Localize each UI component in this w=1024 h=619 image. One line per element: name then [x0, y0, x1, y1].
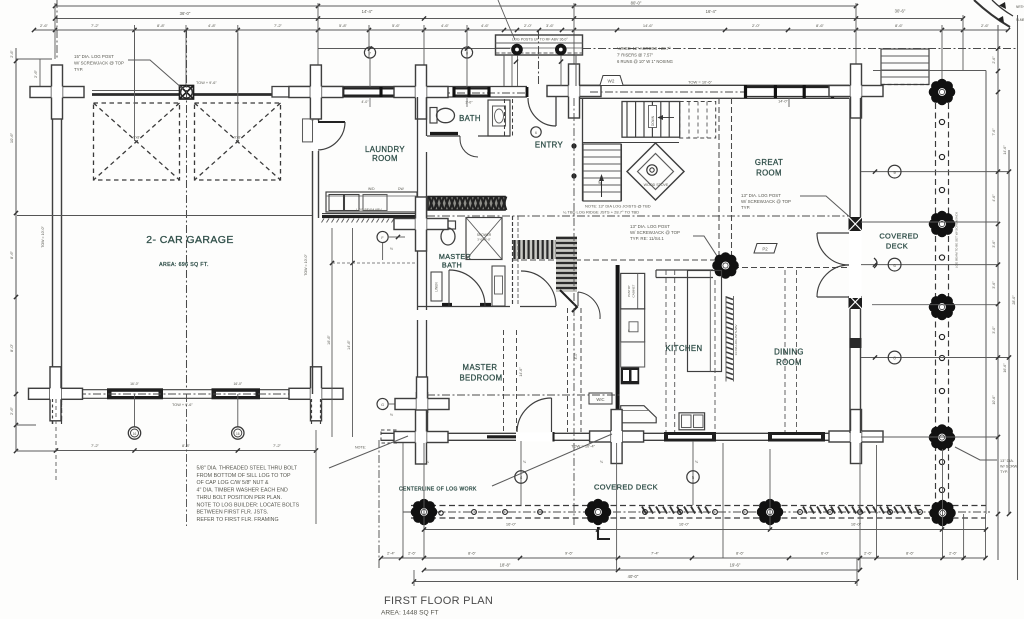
svg-text:WOOD STOVE: WOOD STOVE: [644, 183, 669, 187]
svg-text:28'-0": 28'-0": [1012, 295, 1016, 305]
svg-text:30'-6": 30'-6": [895, 9, 906, 14]
svg-text:FIRST FLOOR PLAN: FIRST FLOOR PLAN: [384, 595, 493, 607]
yard dim lines: [331, 228, 333, 437]
svg-text:2'-6": 2'-6": [864, 551, 873, 556]
house top wall: [318, 86, 527, 88]
svg-text:2'-6": 2'-6": [992, 56, 996, 64]
svg-text:SHOWER: SHOWER: [477, 233, 492, 237]
house south wall: [381, 432, 849, 434]
svg-text:TYP.: TYP.: [741, 205, 750, 210]
svg-text:BATH: BATH: [442, 261, 462, 270]
svg-text:4'-0": 4'-0": [361, 100, 369, 104]
svg-text:TOW + 9'-6": TOW + 9'-6": [172, 403, 193, 407]
deck posts bottom: [411, 499, 438, 526]
right grid bubbles: [861, 171, 1009, 173]
svg-text:16'-0": 16'-0": [233, 382, 242, 386]
svg-text:NRTH: NRTH: [1016, 5, 1024, 9]
svg-text:LAUNDRY: LAUNDRY: [365, 145, 405, 154]
svg-text:¾: ¾: [523, 460, 526, 464]
svg-text:ROOM: ROOM: [372, 154, 398, 163]
svg-text:8'-6": 8'-6": [468, 551, 477, 556]
grid bubble G: [377, 398, 388, 409]
svg-text:8'-6": 8'-6": [736, 551, 745, 556]
svg-text:¾: ¾: [426, 460, 429, 464]
svg-text:KITCHEN: KITCHEN: [665, 344, 702, 353]
deck stairs top: [881, 49, 929, 85]
svg-text:10'-6": 10'-6": [992, 395, 996, 405]
P2 tag: [754, 244, 777, 254]
svg-text:8'-6": 8'-6": [906, 551, 915, 556]
svg-text:REFER TO FIRST FLR. FRAMING: REFER TO FIRST FLR. FRAMING: [197, 517, 279, 523]
svg-text:2'-0": 2'-0": [752, 23, 761, 28]
svg-text:8'-6": 8'-6": [895, 23, 904, 28]
south windows: [664, 432, 716, 442]
svg-text:14'-6": 14'-6": [347, 340, 351, 350]
svg-text:2'-6": 2'-6": [10, 50, 14, 58]
svg-text:3'-0": 3'-0": [992, 326, 996, 334]
entry porch: [496, 35, 583, 55]
stair up (lower): [583, 144, 621, 201]
french doors: [817, 232, 849, 234]
svg-text:6'-0": 6'-0": [821, 551, 830, 556]
svg-text:W/ SCREWJACK @ TOP: W/ SCREWJACK @ TOP: [74, 61, 124, 66]
entry door: [526, 87, 529, 97]
right dimension lines: [997, 25, 999, 560]
svg-text:ROOM: ROOM: [776, 358, 802, 367]
svg-text:TOW + 9'-6": TOW + 9'-6": [196, 81, 217, 85]
svg-text:3'-6": 3'-6": [546, 23, 555, 28]
svg-text:L: L: [628, 329, 630, 333]
svg-text:4" DIA. TIMBER WASHER EACH END: 4" DIA. TIMBER WASHER EACH END: [197, 488, 289, 494]
svg-text:TOW = 10'-6": TOW = 10'-6": [688, 80, 713, 85]
svg-text:14'-4": 14'-4": [362, 9, 373, 14]
garage walls: [52, 92, 54, 424]
svg-text:7' RISERS @ 7.57": 7' RISERS @ 7.57": [617, 53, 654, 58]
top dimension lines: [55, 5, 856, 7]
garage bottom wall: [67, 389, 316, 391]
svg-text:DINING: DINING: [774, 348, 804, 357]
svg-text:40'-0": 40'-0": [628, 574, 639, 579]
svg-text:7'-2": 7'-2": [91, 23, 100, 28]
svg-text:G: G: [381, 403, 384, 407]
svg-text:P2: P2: [762, 247, 768, 252]
svg-text:CABINET: CABINET: [632, 284, 636, 297]
svg-text:16'-0": 16'-0": [506, 522, 517, 527]
svg-text:GREAT: GREAT: [755, 158, 783, 167]
svg-text:LOG BEAM TO BE SET W/ SCREWJAC: LOG BEAM TO BE SET W/ SCREWJACK: [955, 212, 959, 268]
svg-text:BEDROOM: BEDROOM: [459, 374, 502, 383]
svg-text:WIC: WIC: [596, 397, 604, 402]
svg-text:4'-8": 4'-8": [208, 23, 217, 28]
svg-text:W/D: W/D: [368, 187, 375, 191]
window C great room: [744, 86, 834, 97]
svg-text:14'-6": 14'-6": [1003, 145, 1007, 155]
svg-text:BATH: BATH: [459, 114, 481, 123]
svg-text:DECK: DECK: [886, 242, 908, 251]
svg-text:4'-0": 4'-0": [574, 352, 578, 360]
svg-text:W/ SCRW: W/ SCRW: [1000, 465, 1018, 469]
W2 tag: [600, 76, 623, 86]
svg-text:THRU BOLT POSITION PER PLAN.: THRU BOLT POSITION PER PLAN.: [197, 495, 282, 501]
svg-text:18'-8": 18'-8": [500, 563, 511, 568]
svg-text:36'-0": 36'-0": [180, 11, 191, 16]
svg-text:13" DIA. LOG POST: 13" DIA. LOG POST: [630, 224, 670, 229]
svg-text:½: ½: [390, 413, 393, 417]
svg-text:3'-0"x3'-0": 3'-0"x3'-0": [477, 238, 490, 242]
svg-text:8'-6": 8'-6": [816, 23, 825, 28]
svg-text:2'-6": 2'-6": [33, 69, 38, 78]
svg-text:TOW = 10'-0": TOW = 10'-0": [304, 253, 308, 275]
svg-text:14'-6": 14'-6": [519, 367, 523, 377]
svg-text:ENTRY: ENTRY: [535, 141, 564, 150]
svg-text:5/8" DIA. THREADED STEEL THRU: 5/8" DIA. THREADED STEEL THRU BOLT: [197, 466, 298, 472]
deck posts right: [929, 79, 956, 106]
svg-text:7'-6": 7'-6": [992, 128, 996, 136]
svg-text:13 DIA LOG JSTS ABV: 13 DIA LOG JSTS ABV: [734, 324, 738, 355]
svg-text:COVERED: COVERED: [879, 232, 918, 241]
laundry-garage door: [311, 121, 320, 151]
svg-text:TOW = 10'-0": TOW = 10'-0": [41, 225, 45, 247]
svg-text:W/ SCREWJACK @ TOP: W/ SCREWJACK @ TOP: [630, 230, 680, 235]
svg-text:NOTE:: NOTE:: [355, 446, 366, 450]
svg-text:W2: W2: [608, 79, 615, 84]
svg-text:4'-6": 4'-6": [441, 23, 450, 28]
basement stair hatched: [513, 240, 561, 259]
grid bubble F: [377, 231, 388, 242]
svg-text:TYP.: TYP.: [1000, 470, 1008, 474]
deck post dim row: [424, 529, 986, 531]
svg-text:6: 6: [535, 131, 537, 135]
svg-text:3'-6": 3'-6": [992, 281, 996, 289]
window grid bubbles: [318, 48, 510, 50]
left dimension lines: [15, 48, 17, 451]
svg-text:2'-4": 2'-4": [387, 551, 396, 556]
svg-text:LOG POSTS UP TO RF ABV 36.0°: LOG POSTS UP TO RF ABV 36.0°: [512, 38, 568, 42]
svg-text:¼RISE: 12" ACROSS +28.7°: ¼RISE: 12" ACROSS +28.7°: [617, 46, 671, 51]
svg-text:MASTER: MASTER: [463, 363, 498, 372]
svg-text:LINEN: LINEN: [435, 282, 439, 292]
svg-text:14'-0": 14'-0": [778, 100, 788, 104]
svg-text:2'-6": 2'-6": [408, 551, 417, 556]
svg-text:3'-6": 3'-6": [992, 240, 996, 248]
svg-text:DW: DW: [398, 187, 404, 191]
svg-text:13" DIA.: 13" DIA.: [1000, 459, 1014, 463]
svg-text:TOW = 10'-4": TOW = 10'-4": [571, 444, 596, 449]
garage log post: [180, 86, 194, 100]
svg-text:16'-0": 16'-0": [851, 522, 862, 527]
svg-text:7'-2": 7'-2": [274, 23, 283, 28]
svg-text:13" DIA. LOG POST: 13" DIA. LOG POST: [741, 193, 781, 198]
svg-text:TYP. RE: 11/S4.1: TYP. RE: 11/S4.1: [630, 236, 664, 241]
svg-text:NOTE TO LOG BUILDER: LOCATE BO: NOTE TO LOG BUILDER: LOCATE BOLTS: [197, 502, 300, 508]
svg-text:5'-6": 5'-6": [392, 23, 401, 28]
svg-text:8'-8": 8'-8": [157, 23, 166, 28]
svg-text:ROOM: ROOM: [756, 169, 782, 178]
house left wall: [312, 97, 314, 394]
svg-text:8'-6": 8'-6": [9, 250, 14, 259]
svg-text:2'-6": 2'-6": [40, 23, 49, 28]
svg-text:16: 16: [133, 432, 137, 436]
porch posts: [511, 44, 523, 56]
svg-text:CENTERLINE OF LOG WORK: CENTERLINE OF LOG WORK: [399, 487, 477, 493]
svg-text:AREA: 696 SQ FT.: AREA: 696 SQ FT.: [159, 262, 209, 268]
svg-text:¾: ¾: [695, 460, 698, 464]
svg-text:16'-6": 16'-6": [1003, 363, 1007, 373]
svg-text:2'-6": 2'-6": [949, 551, 958, 556]
svg-text:7'-4": 7'-4": [651, 551, 660, 556]
svg-text:NOTE: 13" DIA LOG JOISTS @ TBD: NOTE: 13" DIA LOG JOISTS @ TBD: [585, 204, 651, 209]
svg-text:AREA: 1448 SQ FT: AREA: 1448 SQ FT: [381, 610, 439, 617]
window A: [342, 88, 398, 97]
svg-text:W/ SCREWJACK @ TOP: W/ SCREWJACK @ TOP: [741, 199, 791, 204]
svg-text:7'-2": 7'-2": [91, 443, 100, 448]
svg-text:TYP.: TYP.: [74, 67, 83, 72]
interior log post: [712, 252, 739, 279]
svg-text:6 RUNS @ 10" W 1" NOSING: 6 RUNS @ 10" W 1" NOSING: [617, 59, 673, 64]
svg-text:DOWN: DOWN: [651, 115, 655, 126]
svg-text:LOG BEAM ABV: LOG BEAM ABV: [356, 208, 382, 212]
svg-text:½: ½: [390, 247, 393, 251]
svg-text:9'-6": 9'-6": [565, 551, 574, 556]
stair down (upper): [622, 102, 680, 138]
svg-text:COVERED DECK: COVERED DECK: [594, 483, 658, 492]
svg-text:OF CAP LOG C/W 5/8" NUT &: OF CAP LOG C/W 5/8" NUT &: [197, 480, 269, 486]
svg-text:¾: ¾: [600, 460, 603, 464]
svg-text:80'-0": 80'-0": [631, 1, 642, 6]
svg-text:14'-6": 14'-6": [643, 23, 654, 28]
wood stove: [627, 143, 684, 200]
svg-text:PANTRY: PANTRY: [627, 285, 631, 297]
window B: [453, 87, 490, 89]
svg-text:7'-2": 7'-2": [273, 443, 282, 448]
bottom dimension rows: [381, 557, 986, 559]
garage overhead door symbols: [94, 103, 180, 180]
svg-text:2'-0": 2'-0": [524, 23, 533, 28]
svg-text:16'-0": 16'-0": [130, 382, 139, 386]
house right wall: [849, 98, 851, 433]
svg-text:BETWEEN FIRST FLR. JSTS.: BETWEEN FIRST FLR. JSTS.: [197, 510, 269, 516]
svg-text:19'-6": 19'-6": [730, 563, 741, 568]
svg-text:2'-6": 2'-6": [981, 23, 990, 28]
svg-text:8: 8: [466, 52, 468, 56]
svg-text:2- CAR GARAGE: 2- CAR GARAGE: [146, 234, 233, 246]
svg-text:7: 7: [369, 52, 371, 56]
svg-text:8'-0": 8'-0": [9, 343, 14, 352]
master bath log wall hatched: [428, 197, 505, 211]
svg-text:FROM BOTTOM OF SILL LOG TO TOP: FROM BOTTOM OF SILL LOG TO TOP: [197, 473, 292, 479]
svg-text:16'-6": 16'-6": [327, 335, 331, 345]
laundry south wall: [322, 213, 417, 215]
svg-text:2'-6": 2'-6": [9, 406, 14, 415]
svg-text:4'-6": 4'-6": [992, 194, 996, 202]
svg-text:15" DIA. LOG POST: 15" DIA. LOG POST: [74, 54, 114, 59]
svg-text:16'-4": 16'-4": [706, 9, 717, 14]
svg-text:4'-6": 4'-6": [481, 23, 490, 28]
svg-text:5'-8": 5'-8": [339, 23, 348, 28]
svg-text:3'-0": 3'-0": [465, 101, 473, 105]
svg-text:16: 16: [236, 432, 240, 436]
north compass: [974, 0, 1010, 27]
svg-text:10'-6": 10'-6": [9, 132, 14, 143]
svg-text:16'-0": 16'-0": [679, 522, 690, 527]
